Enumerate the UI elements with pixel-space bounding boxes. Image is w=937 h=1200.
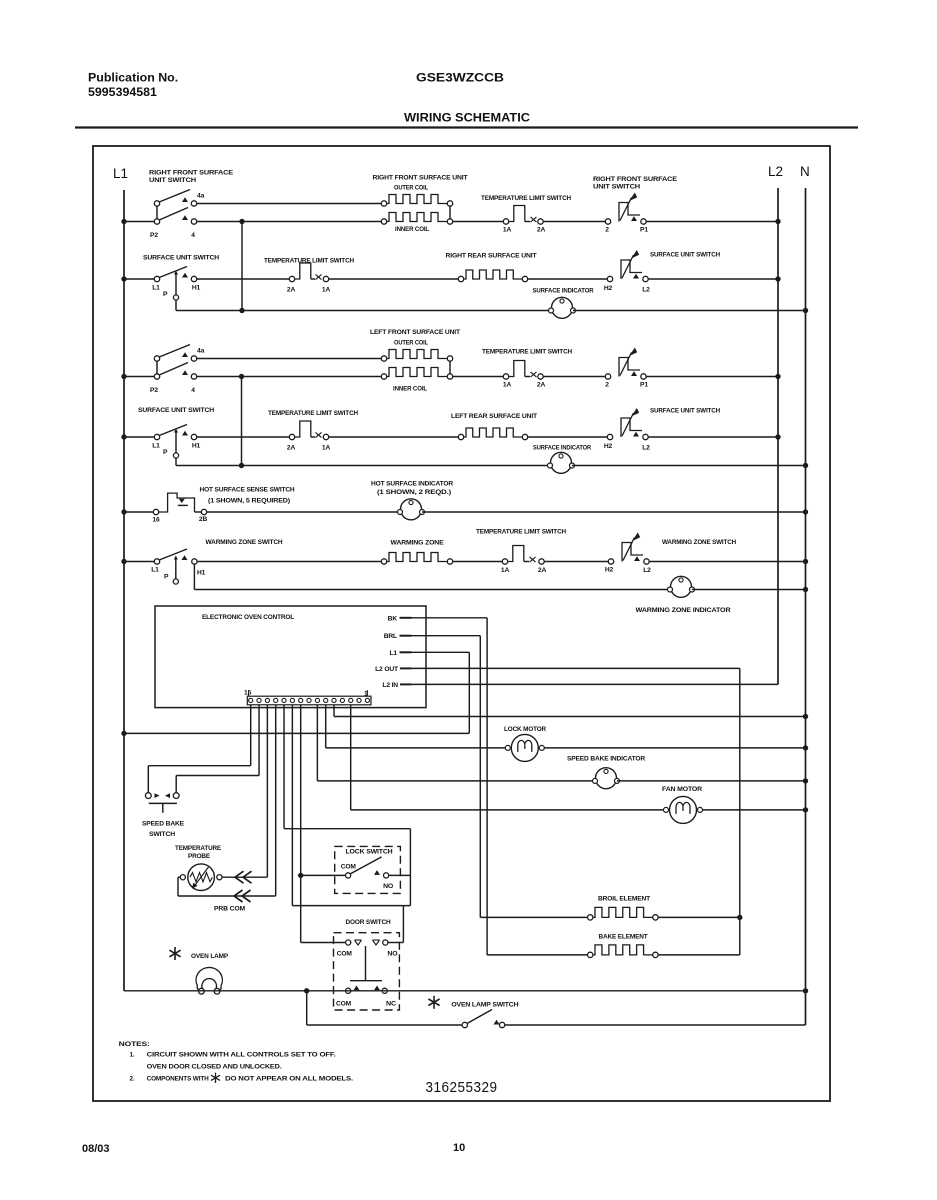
- svg-text:TEMPERATURE LIMIT SWITCH: TEMPERATURE LIMIT SWITCH: [476, 529, 566, 536]
- switch surface unit switch row2: [121, 255, 219, 311]
- sensor temperature probe: [175, 845, 246, 913]
- svg-text:NO: NO: [387, 951, 397, 958]
- svg-text:FAN MOTOR: FAN MOTOR: [662, 786, 702, 793]
- heater right rear surface unit: [446, 253, 538, 282]
- pin L2 OUT: [375, 666, 411, 673]
- wire oven lamp switch to N: [505, 1024, 806, 1026]
- svg-text:WARMING ZONE INDICATOR: WARMING ZONE INDICATOR: [636, 607, 731, 614]
- svg-text:2: 2: [605, 227, 609, 234]
- svg-text:SURFACE UNIT SWITCH: SURFACE UNIT SWITCH: [650, 252, 720, 259]
- svg-text:H2: H2: [604, 443, 613, 450]
- svg-text:P1: P1: [640, 227, 648, 234]
- wire P1 to L2 row1: [646, 219, 780, 224]
- svg-text:OUTER COIL: OUTER COIL: [394, 340, 428, 347]
- notes: [119, 1041, 354, 1083]
- svg-text:COMPONENTS WITH: COMPONENTS WITH: [147, 1076, 210, 1083]
- switch left front surface unit switch (left DPST): [121, 345, 204, 395]
- heater left rear surface unit: [451, 413, 538, 440]
- wire L2 contact to N row6: [649, 559, 808, 564]
- wire surface indicator feed row4: [176, 463, 550, 468]
- lamp surface indicator row4: [533, 445, 591, 474]
- switch temperature limit switch row3: [482, 349, 572, 389]
- wire L2 IN to L2 rail: [412, 683, 779, 685]
- lamp hot surface indicator: [371, 481, 453, 520]
- svg-text:SURFACE UNIT SWITCH: SURFACE UNIT SWITCH: [138, 407, 214, 414]
- svg-text:H2: H2: [605, 567, 614, 574]
- svg-text:P: P: [164, 574, 169, 581]
- svg-text:HOT SURFACE SENSE SWITCH: HOT SURFACE SENSE SWITCH: [200, 487, 295, 494]
- lamp oven lamp: [169, 947, 228, 994]
- wire pin13 to temperature probe: [220, 705, 267, 883]
- svg-text:L2: L2: [642, 287, 650, 294]
- svg-text:L2: L2: [643, 567, 651, 574]
- svg-text:RIGHT FRONT SURFACE UNIT: RIGHT FRONT SURFACE UNIT: [373, 175, 469, 182]
- wire pin3 to fan motor: [351, 705, 666, 810]
- heater left front surface unit inner coil: [381, 361, 452, 393]
- svg-text:TEMPERATURE: TEMPERATURE: [175, 845, 222, 852]
- svg-text:COM: COM: [336, 1001, 352, 1008]
- wire pin7 to speed bake indicator: [317, 705, 594, 781]
- switch temperature limit switch row1: [481, 195, 571, 234]
- svg-text:2A: 2A: [537, 227, 546, 234]
- svg-text:NO: NO: [383, 883, 393, 890]
- svg-text:WARMING ZONE SWITCH: WARMING ZONE SWITCH: [206, 539, 283, 546]
- wire element to temp limit switch row6: [453, 561, 502, 563]
- svg-text:BAKE ELEMENT: BAKE ELEMENT: [599, 934, 649, 941]
- wire temp switch to unit switch row1: [543, 221, 605, 223]
- svg-text:NC: NC: [386, 1001, 396, 1008]
- svg-text:L1: L1: [152, 443, 160, 450]
- svg-text:Publication No.: Publication No.: [88, 71, 178, 85]
- pin BRL: [384, 633, 412, 640]
- svg-text:COM: COM: [337, 951, 353, 958]
- switch door switch: [334, 919, 400, 1010]
- wire L2 rail: [777, 188, 779, 684]
- svg-text:INNER COIL: INNER COIL: [393, 386, 427, 393]
- svg-text:SURFACE UNIT SWITCH: SURFACE UNIT SWITCH: [143, 255, 219, 262]
- svg-text:BROIL ELEMENT: BROIL ELEMENT: [598, 896, 651, 903]
- svg-text:08/03: 08/03: [82, 1143, 110, 1155]
- wire surface indicator to N row4: [572, 463, 808, 468]
- wire warming zone indicator to N: [692, 587, 808, 592]
- switch left front surface unit switch (right): [605, 348, 648, 389]
- svg-text:L1: L1: [151, 567, 159, 574]
- svg-text:L2: L2: [768, 164, 783, 179]
- node N: [800, 164, 810, 179]
- svg-text:INNER COIL: INNER COIL: [395, 226, 429, 233]
- svg-text:DO NOT APPEAR ON ALL MODELS.: DO NOT APPEAR ON ALL MODELS.: [225, 1076, 353, 1083]
- switch oven lamp switch: [428, 996, 518, 1028]
- switch speed bake switch: [142, 793, 185, 838]
- svg-text:H1: H1: [197, 570, 206, 577]
- wire H1 drop to warming zone indicator: [194, 564, 670, 589]
- node L1: [113, 166, 128, 181]
- heater bake element: [588, 934, 740, 958]
- switch warming zone switch (right): [605, 533, 736, 575]
- wire L2 contact to L2 rail row4: [648, 434, 780, 439]
- pin BK: [388, 615, 412, 622]
- svg-text:2B: 2B: [199, 516, 208, 523]
- pin L1: [389, 650, 411, 657]
- svg-text:ELECTRONIC OVEN CONTROL: ELECTRONIC OVEN CONTROL: [202, 614, 294, 621]
- heater left front surface unit outer coil: [370, 329, 461, 361]
- switch lock switch: [335, 846, 411, 893]
- wire oven lamp line L1 to N: [124, 988, 808, 993]
- wire 4a to outer coil row3: [197, 358, 381, 360]
- heater right front surface unit inner coil: [381, 206, 452, 233]
- svg-text:UNIT SWITCH: UNIT SWITCH: [149, 177, 196, 184]
- svg-text:SURFACE UNIT SWITCH: SURFACE UNIT SWITCH: [650, 408, 720, 415]
- svg-text:NOTES:: NOTES:: [119, 1041, 150, 1048]
- wire L2 contact to L2 rail row2: [648, 276, 780, 281]
- wire pin10 to lock bottom: [292, 705, 410, 906]
- wire temp switch to unit switch row3: [543, 376, 605, 378]
- wire L1 pin to L1 rail: [121, 652, 469, 736]
- wire sense switch to hot surface indicator: [207, 511, 400, 513]
- svg-text:OVEN LAMP SWITCH: OVEN LAMP SWITCH: [451, 1002, 518, 1009]
- svg-text:SURFACE INDICATOR: SURFACE INDICATOR: [533, 288, 594, 295]
- svg-text:5995394581: 5995394581: [88, 85, 157, 99]
- wire pin6 to lock motor: [326, 705, 508, 748]
- switch surface unit switch row4: [121, 407, 214, 466]
- svg-text:COM: COM: [341, 864, 357, 871]
- svg-text:GSE3WZCCB: GSE3WZCCB: [416, 71, 504, 85]
- switch surface unit switch row2 right: [604, 250, 720, 294]
- svg-text:2A: 2A: [287, 445, 296, 452]
- svg-text:16: 16: [152, 517, 160, 524]
- svg-text:H1: H1: [192, 285, 201, 292]
- svg-text:L2: L2: [642, 445, 650, 452]
- svg-text:L1: L1: [389, 650, 397, 657]
- svg-text:H1: H1: [192, 443, 201, 450]
- wire 4 to inner coil: [197, 219, 381, 224]
- wire coil to temp limit switch row3: [453, 376, 503, 378]
- wire P1 to L2 row3: [646, 374, 780, 379]
- svg-text:1A: 1A: [322, 287, 331, 294]
- wire 4 to inner coil row3: [197, 374, 381, 379]
- wire pin14 to speed bake switch: [176, 705, 259, 793]
- lamp surface indicator row2: [533, 288, 594, 319]
- wire coil to temp limit switch row1: [453, 221, 503, 223]
- svg-text:CIRCUIT SHOWN WITH ALL CONTROL: CIRCUIT SHOWN WITH ALL CONTROLS SET TO O…: [147, 1052, 336, 1059]
- svg-text:HOT SURFACE INDICATOR: HOT SURFACE INDICATOR: [371, 481, 453, 488]
- svg-text:LOCK SWITCH: LOCK SWITCH: [346, 849, 393, 856]
- svg-text:SPEED BAKE INDICATOR: SPEED BAKE INDICATOR: [567, 756, 645, 763]
- electronic oven control U1: [155, 606, 426, 708]
- switch surface unit switch row4 right: [604, 408, 720, 452]
- wire N rail: [805, 188, 807, 1025]
- wire temp switch to heater row4: [329, 436, 458, 438]
- svg-text:RIGHT FRONT SURFACE: RIGHT FRONT SURFACE: [593, 176, 678, 183]
- svg-text:OVEN LAMP: OVEN LAMP: [191, 953, 229, 960]
- wire speed bake indicator to N: [617, 778, 808, 783]
- wire BRL to broil element: [412, 636, 588, 918]
- switch right front surface unit switch (right): [593, 176, 678, 234]
- svg-text:4: 4: [191, 387, 195, 394]
- svg-text:1.: 1.: [130, 1052, 135, 1059]
- svg-text:TEMPERATURE LIMIT SWITCH: TEMPERATURE LIMIT SWITCH: [481, 195, 571, 202]
- svg-text:RIGHT REAR SURFACE UNIT: RIGHT REAR SURFACE UNIT: [446, 253, 538, 260]
- switch temperature limit switch row2: [264, 258, 354, 294]
- svg-text:P: P: [163, 449, 168, 456]
- svg-text:OUTER COIL: OUTER COIL: [394, 185, 428, 192]
- switch temperature limit switch row6: [476, 529, 566, 575]
- svg-text:316255329: 316255329: [426, 1080, 498, 1096]
- svg-text:RIGHT FRONT SURFACE: RIGHT FRONT SURFACE: [149, 170, 234, 177]
- wire pin15 to speed bake switch: [148, 705, 250, 793]
- lamp warming zone indicator: [636, 576, 731, 614]
- svg-text:(1 SHOWN, 2 REQD.): (1 SHOWN, 2 REQD.): [377, 489, 451, 496]
- wire oven lamp switch branch: [307, 991, 462, 1025]
- wire hot surface indicator to N: [422, 509, 808, 514]
- heater warming zone: [381, 540, 452, 565]
- svg-text:TEMPERATURE LIMIT SWITCH: TEMPERATURE LIMIT SWITCH: [268, 410, 358, 417]
- svg-text:WARMING ZONE SWITCH: WARMING ZONE SWITCH: [662, 539, 736, 546]
- part number 316255329: [426, 1080, 498, 1096]
- wire junction drop row3: [241, 377, 243, 466]
- wire pin5 to N: [334, 705, 808, 719]
- switch hot surface sense switch: [121, 487, 295, 524]
- wire surface indicator to N row2: [573, 308, 808, 313]
- svg-text:4: 4: [191, 232, 195, 239]
- svg-text:2A: 2A: [538, 567, 547, 574]
- svg-text:OVEN DOOR CLOSED AND UNLOCKED.: OVEN DOOR CLOSED AND UNLOCKED.: [147, 1064, 282, 1071]
- svg-text:TEMPERATURE LIMIT SWITCH: TEMPERATURE LIMIT SWITCH: [482, 349, 572, 356]
- svg-text:2A: 2A: [537, 382, 546, 389]
- wire BK to bake element: [412, 618, 588, 955]
- svg-text:N: N: [800, 164, 810, 179]
- svg-text:2A: 2A: [287, 287, 296, 294]
- svg-text:SPEED BAKE: SPEED BAKE: [142, 821, 185, 828]
- wire 4a to outer coil: [197, 203, 381, 205]
- wire pin11 to lock switch NO: [284, 705, 410, 906]
- svg-text:P: P: [163, 291, 168, 298]
- motor fan motor: [662, 786, 703, 823]
- svg-text:(1 SHOWN, 5 REQUIRED): (1 SHOWN, 5 REQUIRED): [208, 498, 290, 505]
- svg-text:4a: 4a: [197, 193, 205, 200]
- svg-text:1A: 1A: [503, 227, 512, 234]
- wire surface indicator feed row2: [176, 308, 551, 313]
- connector J1 15-pin header: [244, 690, 371, 705]
- pin L2 IN: [382, 682, 411, 689]
- switch warming zone switch (left): [121, 539, 283, 584]
- motor lock motor: [504, 726, 546, 761]
- svg-text:PROBE: PROBE: [188, 853, 211, 860]
- wire heater to unit switch row2: [528, 278, 607, 280]
- svg-text:1A: 1A: [503, 382, 512, 389]
- wire L1 rail: [123, 190, 125, 991]
- wire junction drop row1: [241, 222, 243, 311]
- lamp speed bake indicator: [567, 756, 645, 789]
- svg-text:SWITCH: SWITCH: [149, 831, 175, 838]
- switch temperature limit switch row4: [268, 410, 358, 452]
- svg-text:WARMING ZONE: WARMING ZONE: [391, 540, 445, 547]
- wire fan motor to N: [703, 807, 809, 812]
- wire temp switch to warming zone switch right: [544, 561, 608, 563]
- svg-text:L1: L1: [152, 285, 160, 292]
- svg-text:1A: 1A: [501, 567, 510, 574]
- wire temp switch to heater row2: [329, 278, 458, 280]
- svg-text:SURFACE INDICATOR: SURFACE INDICATOR: [533, 445, 591, 452]
- svg-text:P1: P1: [640, 382, 648, 389]
- svg-text:2: 2: [605, 382, 609, 389]
- heater broil element: [588, 896, 740, 921]
- svg-text:LEFT FRONT SURFACE UNIT: LEFT FRONT SURFACE UNIT: [370, 329, 461, 336]
- svg-text:L2 OUT: L2 OUT: [375, 666, 399, 673]
- switch right front surface unit switch (left DPST): [121, 170, 233, 240]
- svg-text:LOCK MOTOR: LOCK MOTOR: [504, 726, 546, 733]
- svg-text:L2 IN: L2 IN: [382, 682, 398, 689]
- wire pin9 to lock COM and door COM: [298, 705, 345, 943]
- svg-text:15: 15: [244, 690, 252, 697]
- svg-text:P2: P2: [150, 387, 158, 394]
- wire L2 OUT to elements: [412, 668, 743, 955]
- wire H1 to warming zone element: [197, 561, 381, 563]
- svg-text:L1: L1: [113, 166, 128, 181]
- svg-text:DOOR SWITCH: DOOR SWITCH: [346, 919, 391, 926]
- svg-text:10: 10: [453, 1142, 465, 1154]
- svg-text:P2: P2: [150, 232, 158, 239]
- wire H1 to temp limit switch row2: [197, 278, 289, 280]
- wire door switch NO up: [388, 906, 403, 943]
- svg-text:BK: BK: [388, 615, 398, 622]
- wire lock motor to N: [544, 745, 808, 750]
- svg-text:LEFT REAR SURFACE UNIT: LEFT REAR SURFACE UNIT: [451, 413, 538, 420]
- heater right front surface unit outer coil: [373, 175, 469, 207]
- svg-text:2.: 2.: [130, 1076, 135, 1083]
- svg-text:BRL: BRL: [384, 633, 397, 640]
- wire H1 to temp limit switch row4: [197, 436, 289, 438]
- wire heater to unit switch row4: [528, 436, 607, 438]
- svg-text:1A: 1A: [322, 445, 331, 452]
- svg-text:4a: 4a: [197, 348, 205, 355]
- svg-text:H2: H2: [604, 285, 613, 292]
- svg-text:UNIT SWITCH: UNIT SWITCH: [593, 184, 640, 191]
- svg-text:WIRING SCHEMATIC: WIRING SCHEMATIC: [404, 111, 530, 125]
- wire pin12 to probe common: [178, 705, 276, 902]
- node L2: [768, 164, 783, 179]
- svg-text:PRB COM: PRB COM: [214, 906, 246, 913]
